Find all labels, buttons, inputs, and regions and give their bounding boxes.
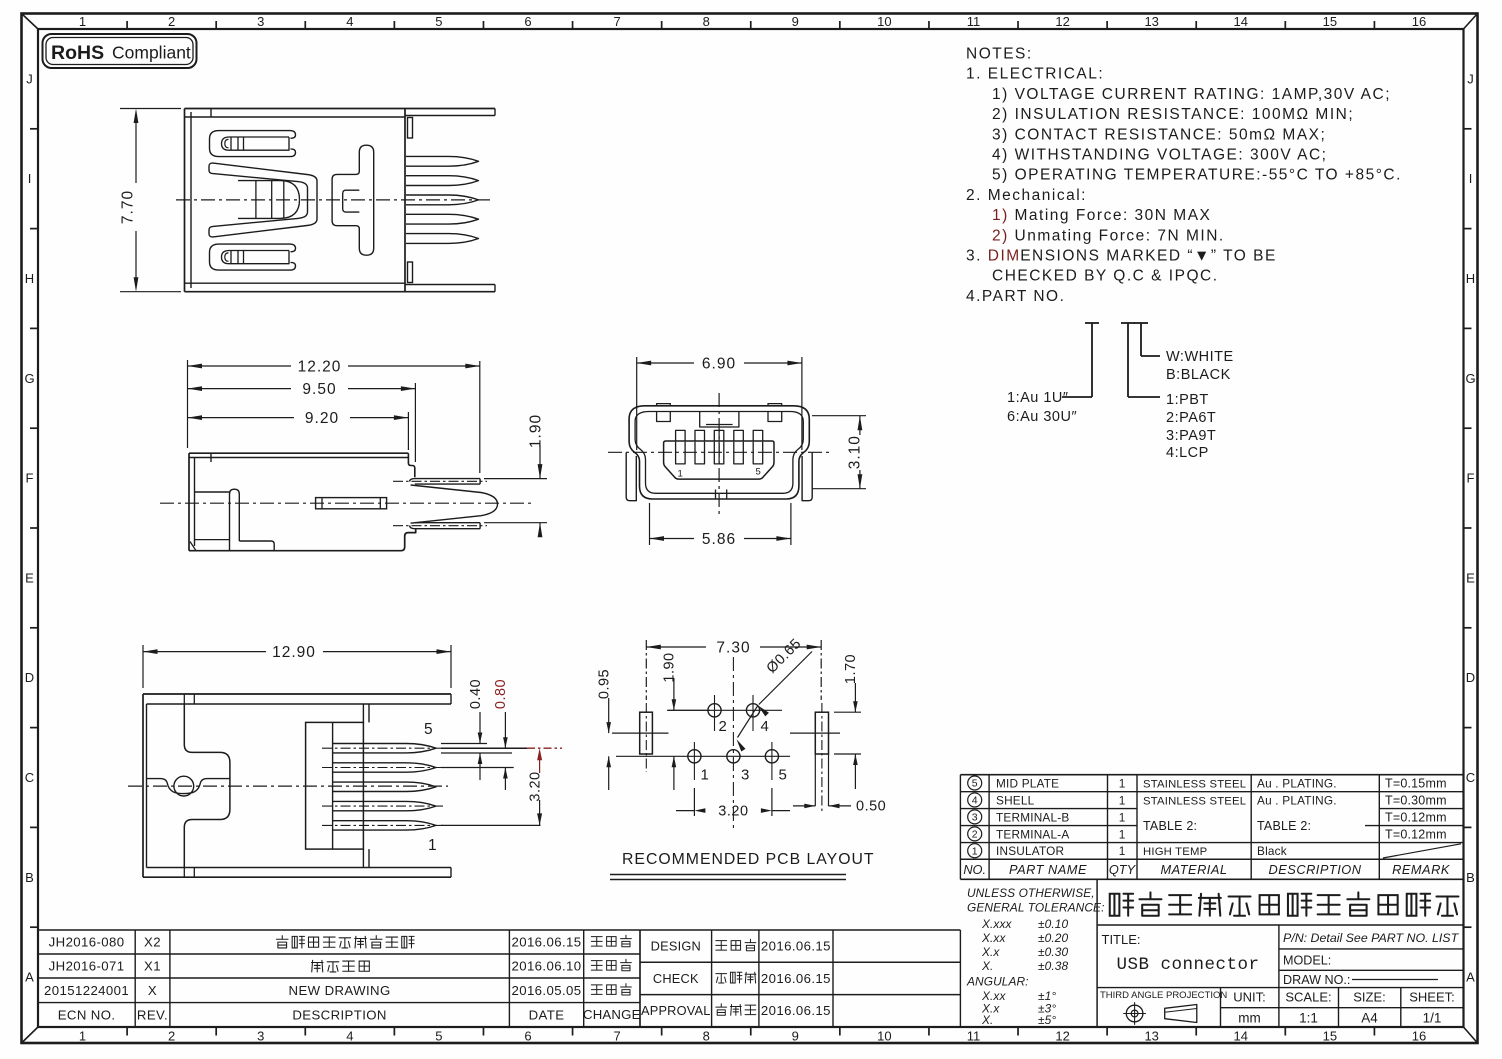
side view spring fork xyxy=(411,485,498,523)
svg-text:NO.: NO. xyxy=(963,862,986,877)
svg-text:TABLE 2:: TABLE 2: xyxy=(1143,819,1197,833)
bottom view locating hole xyxy=(174,776,194,796)
svg-text:9.50: 9.50 xyxy=(302,381,336,398)
svg-text:16: 16 xyxy=(1412,1029,1426,1044)
svg-text:2: 2 xyxy=(972,829,978,841)
dimension 12.20 xyxy=(188,359,480,474)
svg-text:1/1: 1/1 xyxy=(1423,1011,1442,1026)
svg-text:USB connector: USB connector xyxy=(1116,955,1259,975)
svg-text:5.86: 5.86 xyxy=(702,531,736,548)
svg-text:1: 1 xyxy=(1119,827,1126,841)
svg-text:A: A xyxy=(1466,970,1475,985)
svg-text:3: 3 xyxy=(257,14,264,29)
svg-text:1:Au 1U″: 1:Au 1U″ xyxy=(1007,390,1069,406)
svg-text:B:BLACK: B:BLACK xyxy=(1166,367,1231,383)
svg-text:±0.30: ±0.30 xyxy=(1038,945,1068,959)
svg-text:Au . PLATING.: Au . PLATING. xyxy=(1257,776,1337,790)
svg-text:X.: X. xyxy=(981,959,993,973)
svg-text:HIGH TEMP: HIGH TEMP xyxy=(1143,846,1207,858)
svg-text:11: 11 xyxy=(967,1029,981,1044)
svg-text:1: 1 xyxy=(972,845,978,857)
svg-text:MODEL:: MODEL: xyxy=(1283,954,1331,968)
svg-text:Black: Black xyxy=(1257,844,1287,858)
svg-text:1: 1 xyxy=(701,767,709,784)
svg-text:CHECKED BY Q.C & IPQC.: CHECKED BY Q.C & IPQC. xyxy=(992,268,1219,285)
svg-text:UNLESS OTHERWISE,: UNLESS OTHERWISE, xyxy=(967,886,1095,900)
svg-text:2016.05.05: 2016.05.05 xyxy=(511,983,581,998)
svg-text:SIZE:: SIZE: xyxy=(1353,990,1386,1005)
svg-text:F: F xyxy=(1467,471,1475,486)
svg-text:X: X xyxy=(148,983,157,998)
svg-text:GENERAL TOLERANCE:: GENERAL TOLERANCE: xyxy=(967,901,1105,915)
dimension 5.86 xyxy=(650,503,791,548)
svg-text:4: 4 xyxy=(761,718,769,735)
svg-text:DRAW NO.:: DRAW NO.: xyxy=(1283,973,1350,987)
svg-text:B: B xyxy=(1466,870,1475,885)
svg-text:ANGULAR:: ANGULAR: xyxy=(966,975,1029,989)
svg-text:X.x: X.x xyxy=(981,945,1000,959)
svg-text:DATE: DATE xyxy=(529,1007,565,1022)
bottom view pins 5..1 xyxy=(322,744,444,831)
svg-text:B: B xyxy=(25,870,34,885)
svg-text:H: H xyxy=(1466,271,1475,286)
dimension 7.70 with extension lines xyxy=(120,109,182,292)
zone letter strip right xyxy=(1464,71,1476,984)
svg-text:7: 7 xyxy=(613,1029,620,1044)
svg-text:6:Au 30U″: 6:Au 30U″ xyxy=(1007,409,1077,425)
svg-text:QTY: QTY xyxy=(1109,862,1137,877)
dimension 3.20 pcb xyxy=(676,788,790,820)
svg-text:I: I xyxy=(1469,171,1473,186)
dimension 0.40 xyxy=(441,679,512,780)
svg-text:5: 5 xyxy=(435,1029,442,1044)
svg-text:6.90: 6.90 xyxy=(702,356,736,373)
svg-text:Mating Force: 30N MAX: Mating Force: 30N MAX xyxy=(1015,207,1212,224)
side view center slot xyxy=(316,498,387,509)
svg-text:RoHS: RoHS xyxy=(51,42,104,64)
dimension 3.20 vertical xyxy=(441,748,562,825)
svg-text:THIRD ANGLE PROJECTION: THIRD ANGLE PROJECTION xyxy=(1100,990,1227,1001)
svg-text:NEW DRAWING: NEW DRAWING xyxy=(289,983,391,998)
svg-text:Ø0.65: Ø0.65 xyxy=(764,636,805,677)
svg-text:1: 1 xyxy=(1119,793,1126,807)
svg-text:9: 9 xyxy=(792,14,799,29)
svg-text:SCALE:: SCALE: xyxy=(1285,990,1331,1005)
svg-text:3) CONTACT RESISTANCE: 50mΩ MA: 3) CONTACT RESISTANCE: 50mΩ MAX; xyxy=(992,126,1326,143)
svg-text:X2: X2 xyxy=(144,935,161,950)
bottom view top plate xyxy=(143,694,451,704)
dimension 0.80 (red) xyxy=(441,679,514,790)
svg-text:13: 13 xyxy=(1144,1029,1158,1044)
svg-text:F: F xyxy=(26,471,34,486)
svg-text:C: C xyxy=(25,770,34,785)
BOM parts table xyxy=(960,775,1463,880)
svg-text:CHANGE: CHANGE xyxy=(583,1007,641,1022)
svg-text:3.20: 3.20 xyxy=(718,804,748,820)
svg-text:Compliant: Compliant xyxy=(112,43,191,63)
part-number option tree xyxy=(1007,323,1234,461)
svg-text:3: 3 xyxy=(972,812,978,824)
svg-text:H: H xyxy=(25,271,34,286)
dimension 9.20 xyxy=(188,410,409,450)
pn model drawno cells xyxy=(1279,925,1464,988)
top view upper latch xyxy=(210,131,296,157)
svg-text:Unmating Force: 7N MIN.: Unmating Force: 7N MIN. xyxy=(1015,227,1225,244)
svg-text:14: 14 xyxy=(1234,14,1248,29)
svg-text:ENSIONS MARKED “▼” TO BE: ENSIONS MARKED “▼” TO BE xyxy=(1020,248,1277,265)
svg-text:5: 5 xyxy=(756,467,761,478)
svg-text:2. Mechanical:: 2. Mechanical: xyxy=(966,187,1087,204)
svg-text:2: 2 xyxy=(168,1029,175,1044)
svg-text:J: J xyxy=(1467,71,1474,86)
top view T-shaped contact xyxy=(332,145,374,255)
svg-text:4:LCP: 4:LCP xyxy=(1166,445,1209,461)
svg-text:TERMINAL-B: TERMINAL-B xyxy=(996,810,1069,824)
svg-text:T=0.15mm: T=0.15mm xyxy=(1385,776,1447,790)
svg-text:10: 10 xyxy=(877,14,891,29)
svg-text:7.30: 7.30 xyxy=(716,640,750,657)
svg-text:4) WITHSTANDING VOLTAGE: 300V: 4) WITHSTANDING VOLTAGE: 300V AC; xyxy=(992,147,1327,164)
svg-text:W:WHITE: W:WHITE xyxy=(1166,349,1234,365)
title cell xyxy=(1102,932,1260,975)
svg-text:D: D xyxy=(1466,670,1475,685)
svg-text:12: 12 xyxy=(1055,14,1069,29)
svg-text:2016.06.15: 2016.06.15 xyxy=(761,1003,831,1018)
svg-text:±5°: ±5° xyxy=(1038,1013,1056,1027)
svg-text:T=0.12mm: T=0.12mm xyxy=(1385,810,1447,824)
dimension 3.10 xyxy=(812,416,866,489)
svg-text:1:1: 1:1 xyxy=(1299,1011,1318,1026)
svg-text:X.xxx: X.xxx xyxy=(981,917,1013,931)
svg-text:5: 5 xyxy=(779,767,787,784)
svg-text:±0.20: ±0.20 xyxy=(1038,931,1068,945)
svg-text:X1: X1 xyxy=(144,959,161,974)
svg-text:3.: 3. xyxy=(966,248,982,265)
projection + unit scale size sheet row xyxy=(1097,988,1463,1027)
svg-text:G: G xyxy=(1465,371,1475,386)
bottom view left body contour xyxy=(143,694,230,877)
svg-text:14: 14 xyxy=(1234,1029,1248,1044)
svg-text:1: 1 xyxy=(1119,776,1126,790)
side view body outline xyxy=(189,453,416,551)
svg-text:0.80: 0.80 xyxy=(493,679,509,709)
bottom view center line xyxy=(128,785,448,787)
svg-text:REV.: REV. xyxy=(137,1007,168,1022)
svg-text:0.40: 0.40 xyxy=(468,679,484,709)
approval table xyxy=(640,930,960,1027)
svg-text:15: 15 xyxy=(1323,14,1337,29)
svg-text:1) VOLTAGE CURRENT RATING: 1AM: 1) VOLTAGE CURRENT RATING: 1AMP,30V AC; xyxy=(992,86,1391,103)
svg-text:NOTES:: NOTES: xyxy=(966,46,1033,63)
svg-text:Au . PLATING.: Au . PLATING. xyxy=(1257,793,1337,807)
side view left latch block xyxy=(195,489,275,551)
svg-text:4: 4 xyxy=(346,1029,353,1044)
pcb hole number labels xyxy=(701,718,787,784)
svg-text:13: 13 xyxy=(1144,14,1158,29)
svg-text:4: 4 xyxy=(972,795,978,807)
svg-text:CHECK: CHECK xyxy=(653,971,699,986)
svg-text:3:PA9T: 3:PA9T xyxy=(1166,428,1216,444)
revision table xyxy=(38,930,641,1027)
svg-text:7: 7 xyxy=(613,14,620,29)
pin number labels 5 1 xyxy=(424,721,437,854)
top view contact pins (5) xyxy=(406,156,479,243)
svg-text:TITLE:: TITLE: xyxy=(1102,932,1141,947)
front view mounting legs xyxy=(626,453,812,501)
svg-text:3: 3 xyxy=(741,767,749,784)
svg-text:E: E xyxy=(25,570,34,585)
notes text block xyxy=(966,46,1402,305)
svg-text:5: 5 xyxy=(424,721,433,738)
bottom view terminal block xyxy=(306,704,369,868)
svg-text:ECN NO.: ECN NO. xyxy=(58,1007,116,1022)
svg-text:1. ELECTRICAL:: 1. ELECTRICAL: xyxy=(966,66,1104,83)
side view bottom terminal strip xyxy=(393,523,487,529)
svg-text:DESCRIPTION: DESCRIPTION xyxy=(1269,862,1362,877)
front view tongue trapezoid xyxy=(664,441,774,479)
side view center line xyxy=(160,502,532,504)
svg-text:8: 8 xyxy=(703,1029,710,1044)
svg-text:4: 4 xyxy=(346,14,353,29)
svg-text:G: G xyxy=(24,371,34,386)
svg-text:15: 15 xyxy=(1323,1029,1337,1044)
top view shell outline xyxy=(185,109,496,292)
front view center lines xyxy=(608,393,832,516)
svg-text:SHEET:: SHEET: xyxy=(1409,990,1455,1005)
zone number strip bottom xyxy=(79,1027,1426,1044)
svg-text:JH2016-071: JH2016-071 xyxy=(49,959,125,974)
svg-text:2: 2 xyxy=(719,718,727,735)
svg-text:2016.06.15: 2016.06.15 xyxy=(761,971,831,986)
svg-text:2016.06.10: 2016.06.10 xyxy=(511,959,581,974)
svg-text:±0.10: ±0.10 xyxy=(1038,917,1068,931)
svg-text:2016.06.15: 2016.06.15 xyxy=(511,935,581,950)
svg-text:mm: mm xyxy=(1238,1011,1261,1026)
svg-text:TABLE 2:: TABLE 2: xyxy=(1257,819,1311,833)
svg-text:1: 1 xyxy=(428,837,437,854)
top view lower latch xyxy=(210,244,296,270)
svg-text:SHELL: SHELL xyxy=(996,793,1035,807)
svg-text:8: 8 xyxy=(703,14,710,29)
svg-text:3.10: 3.10 xyxy=(847,435,864,469)
svg-text:2) INSULATION RESISTANCE: 100M: 2) INSULATION RESISTANCE: 100MΩ MIN; xyxy=(992,106,1354,123)
svg-text:5: 5 xyxy=(972,778,978,790)
svg-text:7.70: 7.70 xyxy=(120,190,137,224)
svg-text:REMARK: REMARK xyxy=(1392,862,1450,877)
dimension 1.90 pcb xyxy=(662,652,710,790)
svg-text:1: 1 xyxy=(1119,810,1126,824)
svg-text:20151224001: 20151224001 xyxy=(44,983,129,998)
svg-text:T=0.30mm: T=0.30mm xyxy=(1385,793,1447,807)
svg-text:C: C xyxy=(1466,770,1475,785)
svg-text:1.90: 1.90 xyxy=(662,652,678,682)
svg-text:1): 1) xyxy=(992,207,1009,224)
svg-text:RECOMMENDED PCB LAYOUT: RECOMMENDED PCB LAYOUT xyxy=(622,851,875,868)
front view top tabs xyxy=(657,404,782,406)
svg-text:1:PBT: 1:PBT xyxy=(1166,392,1209,408)
svg-text:APPROVAL: APPROVAL xyxy=(641,1003,711,1018)
svg-text:4.PART NO.: 4.PART NO. xyxy=(966,288,1065,305)
svg-text:2): 2) xyxy=(992,227,1009,244)
svg-text:0.50: 0.50 xyxy=(856,799,886,815)
svg-text:12.90: 12.90 xyxy=(272,644,316,661)
svg-text:UNIT:: UNIT: xyxy=(1233,990,1266,1005)
svg-text:DESCRIPTION: DESCRIPTION xyxy=(292,1007,387,1022)
svg-text:T=0.12mm: T=0.12mm xyxy=(1385,827,1447,841)
dimension 1.70 pcb xyxy=(834,654,861,789)
svg-text:X.xx: X.xx xyxy=(981,931,1006,945)
svg-text:0.95: 0.95 xyxy=(596,669,612,699)
svg-text:MATERIAL: MATERIAL xyxy=(1160,862,1227,877)
dimension 12.90 xyxy=(143,644,451,688)
svg-text:6: 6 xyxy=(524,14,531,29)
tolerance block xyxy=(966,879,1105,1027)
svg-text:1.70: 1.70 xyxy=(843,654,859,684)
dimension 1.90 xyxy=(484,414,547,537)
svg-text:STAINLESS STEEL: STAINLESS STEEL xyxy=(1143,795,1246,807)
zone number strip top xyxy=(79,14,1426,29)
svg-text:9: 9 xyxy=(792,1029,799,1044)
caption RECOMMENDED PCB LAYOUT xyxy=(610,851,875,880)
svg-text:12.20: 12.20 xyxy=(298,359,342,376)
svg-text:10: 10 xyxy=(877,1029,891,1044)
front view contacts lower row xyxy=(676,442,763,464)
top view center spring contact xyxy=(209,163,317,237)
RoHS Compliant label box xyxy=(43,34,197,68)
pcb right pad xyxy=(790,703,840,812)
bottom view bottom plate xyxy=(143,868,451,878)
svg-text:MID PLATE: MID PLATE xyxy=(996,776,1059,790)
svg-text:16: 16 xyxy=(1412,14,1426,29)
front view pin numbers 1 5 xyxy=(678,467,761,480)
zone letter strip left xyxy=(24,71,38,984)
front view shell outline xyxy=(629,406,809,499)
svg-text:TERMINAL-A: TERMINAL-A xyxy=(996,827,1069,841)
pcb holes row 2 4 xyxy=(668,695,782,731)
dimension 0.95 pcb xyxy=(596,669,612,790)
svg-text:DIM: DIM xyxy=(988,248,1021,265)
svg-text:1: 1 xyxy=(678,469,683,480)
svg-text:1: 1 xyxy=(79,14,86,29)
svg-text:P/N: Detail See PART NO. L: P/N: Detail See PART NO. LIST xyxy=(1283,931,1460,945)
svg-text:DESIGN: DESIGN xyxy=(651,939,701,954)
svg-text:E: E xyxy=(1466,570,1475,585)
svg-text:I: I xyxy=(28,171,32,186)
svg-text:INSULATOR: INSULATOR xyxy=(996,844,1064,858)
dimension 9.50 xyxy=(188,381,416,462)
svg-text:X.: X. xyxy=(981,1013,993,1027)
front view inner top rectangles xyxy=(657,412,782,428)
dimension 0.50 pcb xyxy=(793,799,886,815)
dimension 6.90 xyxy=(637,356,802,451)
svg-text:1.90: 1.90 xyxy=(528,414,545,448)
svg-text:6: 6 xyxy=(524,1029,531,1044)
svg-text:1: 1 xyxy=(1119,844,1126,858)
svg-text:A4: A4 xyxy=(1361,1011,1378,1026)
company name (CJK) xyxy=(1097,892,1463,925)
svg-text:5) OPERATING TEMPERATURE:-55°C: 5) OPERATING TEMPERATURE:-55°C TO +85°C. xyxy=(992,167,1402,184)
svg-text:11: 11 xyxy=(967,14,981,29)
svg-text:12: 12 xyxy=(1055,1029,1069,1044)
svg-text:PART NAME: PART NAME xyxy=(1009,862,1087,877)
top view center line xyxy=(176,199,492,201)
svg-text:J: J xyxy=(26,71,33,86)
svg-text:JH2016-080: JH2016-080 xyxy=(49,935,125,950)
svg-text:D: D xyxy=(25,670,34,685)
svg-text:2:PA6T: 2:PA6T xyxy=(1166,410,1216,426)
svg-text:STAINLESS STEEL: STAINLESS STEEL xyxy=(1143,778,1246,790)
svg-text:3.20: 3.20 xyxy=(527,771,543,801)
svg-text:1: 1 xyxy=(79,1029,86,1044)
front view bottom tab xyxy=(716,490,727,500)
svg-text:2016.06.15: 2016.06.15 xyxy=(761,939,831,954)
svg-text:9.20: 9.20 xyxy=(305,410,339,427)
svg-text:A: A xyxy=(25,970,34,985)
front view contacts upper row xyxy=(676,430,763,441)
pcb center line vertical xyxy=(732,657,734,832)
leader diameter 0.65 xyxy=(737,636,813,752)
side view top terminal strip xyxy=(393,479,487,485)
svg-text:5: 5 xyxy=(435,14,442,29)
dimension 7.30 xyxy=(646,640,821,701)
pcb left pad xyxy=(612,703,669,772)
svg-text:3: 3 xyxy=(257,1029,264,1044)
pcb holes row 1 3 5 xyxy=(616,742,790,780)
svg-text:2: 2 xyxy=(168,14,175,29)
svg-text:±0.38: ±0.38 xyxy=(1038,959,1068,973)
